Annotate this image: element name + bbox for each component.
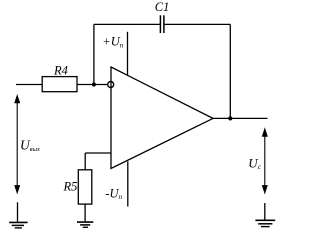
capacitor C1 [160,15,164,33]
label Uвых [20,137,40,153]
label C1 [155,0,170,14]
ground right [255,203,275,227]
wire R4 to op-amp input [77,84,107,86]
wire non-inverting input vertical [84,153,86,170]
label +Un [102,35,123,50]
resistor R5 [78,170,92,204]
label -Un [105,186,122,201]
wire top feedback right segment [165,23,231,25]
op-amp U1 [111,67,213,169]
wire non-inverting input horizontal [85,152,111,154]
resistor R4 [42,77,77,92]
node output junction [228,116,232,120]
label R5 [63,179,78,193]
wire feedback left vertical [93,24,95,84]
measurement arrow Uc [262,127,268,194]
label Uc [248,155,261,171]
power -Un stub [127,161,129,206]
label R4 [53,63,68,77]
inverting input bubble [108,82,114,88]
node input junction [92,82,96,86]
ground under R5 [77,222,93,227]
wire input left [16,84,42,86]
wire R5 to ground [84,204,86,221]
power +Un stub [127,32,129,76]
measurement arrow Uвых [14,94,20,194]
wire feedback right vertical [229,24,231,118]
svg-text:R5: R5 [63,179,78,193]
ground left [9,202,28,228]
wire top feedback left segment [94,23,160,25]
wire output [213,117,268,119]
svg-text:R4: R4 [53,63,68,77]
svg-text:C1: C1 [155,0,170,14]
